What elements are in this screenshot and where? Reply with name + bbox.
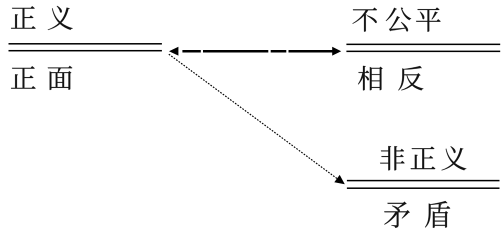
fraction bar: left double line under 正义 bbox=[9, 43, 162, 51]
text node: 正 义 (top-left numerator "justice") bbox=[11, 6, 73, 30]
text node: 不公平 (top-right numerator "unfair") bbox=[352, 7, 440, 31]
text node: 矛 盾 (bottom denominator "contradiction") bbox=[384, 201, 450, 228]
fraction bar: bottom-right double line under 非正义 bbox=[347, 180, 500, 189]
arrow: diagonal dotted arrow from left fraction to bottom-right fraction bbox=[169, 54, 345, 184]
arrow: horizontal double-headed dashed arrow between the two fractions bbox=[169, 47, 341, 56]
text node: 相 反 (right denominator "opposite") bbox=[358, 66, 423, 91]
text node: 非正义 (bottom numerator "injustice") bbox=[380, 146, 466, 170]
fraction bar: top-right double line under 不公平 bbox=[346, 44, 500, 53]
text node: 正 面 (left denominator "positive") bbox=[11, 66, 72, 90]
